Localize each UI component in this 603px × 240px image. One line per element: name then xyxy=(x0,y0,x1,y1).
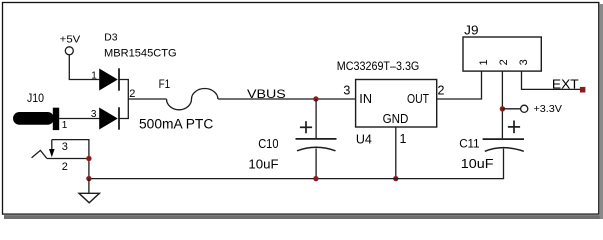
regulator U4 xyxy=(356,80,437,128)
svg-text:3: 3 xyxy=(62,141,68,153)
svg-text:2: 2 xyxy=(62,161,68,173)
svg-text:J9: J9 xyxy=(464,23,478,38)
svg-text:1: 1 xyxy=(91,70,97,81)
wire U4 GND to rail xyxy=(395,127,397,179)
fuse F1 (PTC) xyxy=(139,77,218,131)
wire C11 to rail xyxy=(503,149,505,179)
svg-text:1: 1 xyxy=(62,120,68,131)
svg-text:10uF: 10uF xyxy=(461,157,494,171)
svg-text:3: 3 xyxy=(518,59,530,65)
wire J9 pin2 down xyxy=(501,71,503,138)
wire C10 to ground rail xyxy=(315,148,317,178)
svg-text:1: 1 xyxy=(478,59,490,65)
diode D3 bottom half xyxy=(99,107,119,129)
svg-text:MBR1545CTG: MBR1545CTG xyxy=(104,48,177,60)
wire U4 OUT to J9 pin1 xyxy=(437,71,482,99)
svg-text:2: 2 xyxy=(129,88,135,100)
svg-text:EXT: EXT xyxy=(552,78,579,92)
svg-text:VBUS: VBUS xyxy=(247,87,286,101)
svg-text:MC33269T–3.3G: MC33269T–3.3G xyxy=(337,59,420,73)
junction rail left xyxy=(86,176,91,181)
svg-text:10uF: 10uF xyxy=(248,158,279,172)
wire J9 pin3 to EXT xyxy=(522,71,582,89)
svg-text:OUT: OUT xyxy=(407,92,429,106)
connector J9 xyxy=(463,23,541,72)
wire junction to +3.3V terminal xyxy=(502,108,520,110)
ground xyxy=(79,193,99,203)
wire D3 out to fuse xyxy=(128,98,166,100)
svg-text:D3: D3 xyxy=(104,31,117,43)
svg-text:2: 2 xyxy=(438,84,445,98)
svg-text:C10: C10 xyxy=(258,137,278,151)
junction C10 rail xyxy=(313,176,318,181)
capacitor C11 xyxy=(459,121,524,172)
svg-text:1: 1 xyxy=(400,132,407,146)
diode D3 top half xyxy=(99,68,119,90)
junction +3.3V branch xyxy=(500,106,505,111)
svg-text:IN: IN xyxy=(359,92,372,106)
svg-text:J10: J10 xyxy=(27,93,44,105)
ground rail wire xyxy=(89,178,504,180)
connector J10 barrel jack xyxy=(13,93,59,130)
off-page marker (EXT) xyxy=(580,87,586,93)
svg-text:+3.3V: +3.3V xyxy=(534,104,563,115)
+3.3V terminal xyxy=(521,104,562,115)
svg-text:2: 2 xyxy=(498,59,510,65)
svg-text:U4: U4 xyxy=(356,132,372,146)
svg-text:3: 3 xyxy=(343,84,350,98)
J10 switch contact (pins 2,3) xyxy=(32,140,89,179)
svg-text:GND: GND xyxy=(383,111,409,126)
junction switch/ground xyxy=(86,156,91,161)
junction GND rail xyxy=(393,176,398,181)
junction VBUS/C10 xyxy=(313,96,318,101)
wire fuse to U4 IN (VBUS net) xyxy=(218,98,356,100)
svg-text:F1: F1 xyxy=(159,77,171,91)
wire +5V to D3 pin1 xyxy=(69,55,99,80)
wire cathode bus xyxy=(119,80,128,119)
+5V terminal xyxy=(60,34,81,55)
capacitor C10 xyxy=(248,121,336,171)
svg-text:+5V: +5V xyxy=(60,34,81,46)
svg-text:3: 3 xyxy=(91,109,97,120)
svg-text:500mA PTC: 500mA PTC xyxy=(139,116,214,131)
wire VBUS to C10 xyxy=(315,99,317,138)
wire J10 pin1 to D3 pin3 xyxy=(59,118,99,120)
wire to ground symbol xyxy=(88,179,90,194)
svg-text:C11: C11 xyxy=(459,137,480,151)
